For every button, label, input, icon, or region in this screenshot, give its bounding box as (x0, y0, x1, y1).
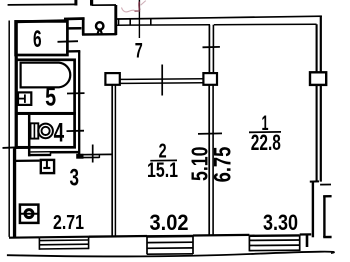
wire: balcony bracket top arm (323, 195, 331, 198)
wire: stub up right of entrance (90, 0, 93, 6)
wall: bottom wall between windows 2 (193, 234, 249, 237)
tick: room 4 door tick (67, 130, 85, 132)
wall: shelf stub right of room 6 (68, 27, 82, 30)
tick: ownership boundary line with red mark (138, 0, 140, 38)
svg-text:7: 7 (135, 38, 143, 62)
wall: bottom wall kitchen segment (9, 236, 39, 238)
window: kitchen window top line (39, 236, 88, 239)
wire: balcony bracket bottom arm (323, 236, 331, 239)
wall: kitchen counter edge line (16, 159, 40, 162)
wall: room1 left wall inner lower (212, 85, 214, 236)
fixture: kitchen sink circle (25, 210, 33, 218)
fixture: stove stem (46, 160, 48, 167)
wall: entrance niche bottom (82, 33, 117, 36)
wall: bottom wall right of room1 window (300, 233, 312, 235)
fixture: toilet bowl outer (38, 124, 53, 139)
fixture: toilet tank inner line (33, 123, 35, 138)
fixture: washbasin tap vertical (24, 94, 26, 103)
fixture: stove box (41, 160, 54, 173)
fixture: washbasin tap horizontal (18, 98, 25, 100)
wall: step between room6 wall and block right wall (66, 50, 80, 53)
svg-text:6: 6 (33, 26, 42, 53)
wall: band divider c (150, 19, 152, 25)
fixture: kitchen sink box (20, 205, 39, 223)
svg-text:22.8: 22.8 (251, 130, 281, 155)
window: kitchen window right jamb (88, 237, 90, 250)
squiggle: red handwriting mark (122, 1, 146, 12)
svg-text:3: 3 (69, 165, 79, 192)
wall: room2 top partition upper line (120, 78, 204, 81)
svg-text:3.30: 3.30 (263, 210, 298, 235)
wall: jog connector (50, 152, 52, 156)
window: room2 window left jamb (146, 236, 148, 254)
wall: room 6 top (15, 21, 68, 22)
block: room2 top-left pier (105, 73, 119, 85)
window: room1 window top line (249, 234, 299, 237)
fixture: door symbol legs (96, 29, 103, 34)
wall: room1 left wall outer upper (208, 25, 210, 73)
window: kitchen window line3 (39, 243, 88, 246)
wall: block right wall outer line (78, 51, 80, 156)
window: room1 window line2 (249, 239, 299, 241)
svg-text:5: 5 (45, 82, 56, 112)
fixture: stove bar (43, 167, 50, 169)
wall: room1 left wall inner upper (212, 25, 214, 73)
window: kitchen window line4 (39, 247, 88, 250)
wall: top band outer line (116, 16, 322, 19)
window: kitchen window line2 (39, 239, 88, 242)
wall: kitchen left wall (13, 149, 16, 239)
wall: right exterior inner line (316, 24, 318, 181)
fixture: kitchen sink mid line (20, 213, 39, 215)
svg-text:4: 4 (54, 117, 65, 147)
wall: room2 left wall inner line (114, 85, 116, 236)
wall: kitchen partition upper line (78, 153, 112, 155)
room 5 outline (16, 60, 74, 114)
window: room1 window left jamb (248, 236, 250, 252)
wall: entrance niche left vertical (82, 18, 85, 35)
window: kitchen window left jamb (38, 237, 40, 250)
wall: kitchen top wall west segment low part (30, 154, 52, 157)
fixture: door circle symbol (96, 22, 103, 29)
wall: right exterior outer line (320, 16, 322, 182)
wall: top band inner line left part (116, 24, 210, 27)
wall: band divider a (118, 19, 120, 25)
wall: right lower wall to balcony door (312, 182, 314, 238)
block: room2 top-right pier (203, 73, 217, 85)
wall: top band inner line right part (214, 23, 317, 26)
wall: junction blob at block corner (76, 154, 83, 159)
wire: stub up left of entrance (74, 0, 77, 6)
window: room2 window line3 (147, 247, 193, 249)
wire: neighbour outline top-left horizontal (8, 3, 76, 6)
wall: block bottom wall left part (14, 147, 30, 149)
fixture: toilet tank (31, 123, 39, 138)
wire: threshold thin line (30, 151, 50, 153)
window: room2 window line2 (147, 241, 193, 243)
svg-text:6.75: 6.75 (209, 147, 236, 183)
wall: room2 top partition lower line (120, 82, 204, 85)
room 6 outline (16, 21, 68, 55)
window: room2 window right jamb (192, 236, 194, 254)
room 4 outline (16, 113, 74, 147)
tick: right wall step at loggia (310, 180, 319, 182)
wall: bottom wall between windows 1 (89, 235, 147, 238)
wall: left exterior outer line (8, 21, 10, 237)
underline: room 1 (249, 131, 281, 133)
tick: room1 upper door tick (203, 46, 220, 48)
tick: left wall tick (3, 146, 18, 149)
svg-text:2.71: 2.71 (53, 211, 84, 234)
wall: room 4 duct partition (28, 115, 31, 156)
tick: room 6 door tick (58, 40, 79, 43)
underline: room 2 (150, 159, 177, 161)
wall: balcony door jamb (306, 234, 309, 247)
svg-text:15.1: 15.1 (147, 158, 178, 182)
svg-text:3.02: 3.02 (150, 210, 189, 235)
tick: rooms 1-2 wall tick (198, 132, 222, 135)
wall: niche right vertical down from neighbour line (114, 5, 117, 35)
wall: room1 left wall outer lower (208, 85, 210, 236)
wire: balcony bracket vertical (323, 196, 325, 238)
window: room1 window right jamb (299, 235, 301, 251)
window: room2 window top line (147, 235, 193, 238)
window: room2 window line4 (147, 253, 193, 255)
wall: corridor top segment (64, 17, 85, 20)
wire: facade line (7, 252, 334, 257)
tick: kitchen door tick (92, 145, 94, 163)
fixture: bathtub (21, 63, 71, 88)
fixture: toilet bowl inner (42, 127, 50, 135)
wall: band divider b (129, 19, 131, 25)
window: room1 window line4 (249, 249, 299, 251)
tick: room2 top door tick (161, 65, 163, 96)
window: room1 window line3 (249, 244, 299, 246)
wall: kitchen top wall west segment high part (50, 151, 80, 154)
block: square box on right wall (310, 72, 326, 85)
wire: loggia short line (320, 184, 331, 186)
wire: neighbour outline right horizontal (92, 4, 116, 6)
wall: kitchen partition lower line (78, 156, 100, 158)
fixture: washbasin box (18, 92, 31, 105)
wall: kitchen partition closure (98, 154, 100, 158)
wall: room2 left wall outer line (111, 85, 113, 236)
tick: room 5 door tick (67, 92, 85, 94)
wall: block left wall (15, 21, 18, 149)
